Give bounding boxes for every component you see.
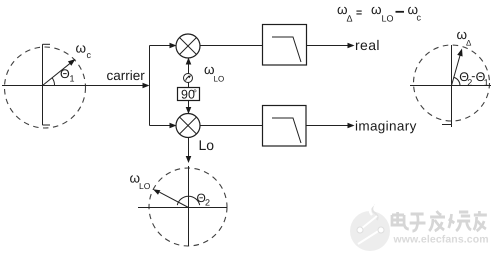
svg-text:LO: LO xyxy=(139,181,151,191)
svg-text:real: real xyxy=(355,37,380,53)
svg-text:°: ° xyxy=(193,89,197,100)
svg-text:=: = xyxy=(356,7,362,19)
svg-text:imaginary: imaginary xyxy=(355,118,417,133)
svg-text:1: 1 xyxy=(70,74,75,84)
svg-text:Lo: Lo xyxy=(199,137,215,153)
svg-text:LO: LO xyxy=(382,14,394,24)
svg-text:LO: LO xyxy=(214,75,225,84)
svg-text:c: c xyxy=(417,13,422,23)
svg-text:Θ: Θ xyxy=(60,67,70,81)
svg-text:ω: ω xyxy=(371,2,382,17)
svg-text:carrier: carrier xyxy=(107,68,146,83)
svg-text:c: c xyxy=(87,50,92,60)
svg-text:Δ: Δ xyxy=(347,14,353,24)
svg-text:ω: ω xyxy=(76,41,87,56)
svg-text:1: 1 xyxy=(484,78,489,88)
svg-text:Δ: Δ xyxy=(466,39,472,48)
svg-text:2: 2 xyxy=(205,198,210,208)
svg-text:www.elecfans.com: www.elecfans.com xyxy=(393,234,489,246)
